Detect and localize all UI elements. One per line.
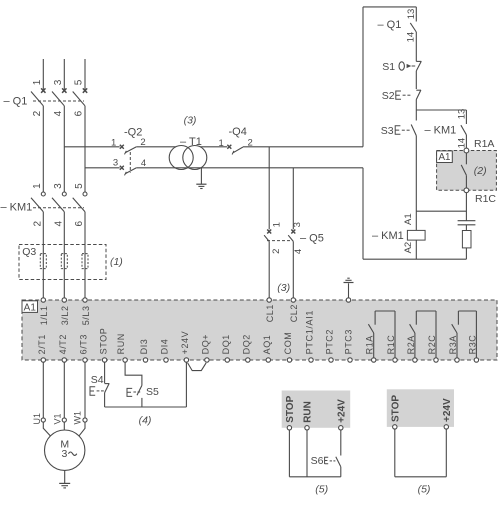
svg-text:2: 2 [248,137,253,148]
svg-text:STOP: STOP [390,395,401,422]
svg-text:6/T3: 6/T3 [79,334,89,354]
svg-text:1: 1 [272,222,283,227]
svg-text:(5): (5) [315,483,328,495]
svg-text:– KM1: – KM1 [1,202,33,214]
svg-text:CL2: CL2 [289,304,299,322]
svg-text:AQ1: AQ1 [262,335,272,355]
svg-text:– Q5: – Q5 [300,233,324,245]
svg-text:4: 4 [141,158,146,169]
svg-text:Q3: Q3 [22,246,36,258]
svg-text:4/T2: 4/T2 [58,334,68,354]
svg-text:– Q1: – Q1 [378,19,402,31]
svg-text:2: 2 [32,221,43,227]
svg-text:R3A: R3A [448,335,458,354]
svg-text:STOP: STOP [285,395,296,422]
svg-text:4: 4 [53,110,64,116]
svg-text:5: 5 [74,183,85,189]
svg-text:3: 3 [292,222,303,227]
svg-text:R3C: R3C [467,335,477,355]
svg-text:CL1: CL1 [265,304,275,322]
svg-text:DI3: DI3 [139,339,149,355]
svg-text:(2): (2) [474,165,487,177]
svg-text:(3): (3) [184,115,197,127]
svg-text:1: 1 [32,183,43,189]
svg-text:+24V: +24V [180,331,190,355]
svg-text:5: 5 [74,79,85,85]
svg-text:3: 3 [53,183,64,189]
svg-text:R2A: R2A [406,335,416,354]
svg-text:– Q1: – Q1 [4,95,28,107]
svg-text:(3): (3) [277,282,290,294]
svg-text:PTC2: PTC2 [325,329,335,354]
svg-text:STOP: STOP [98,328,108,355]
svg-text:6: 6 [74,221,85,227]
svg-text:R1C: R1C [386,335,396,355]
svg-text:13: 13 [456,109,467,120]
svg-text:RUN: RUN [116,333,126,354]
svg-text:DQ+: DQ+ [201,334,211,355]
svg-text:R1A: R1A [365,335,375,354]
svg-text:(5): (5) [418,483,431,495]
svg-text:V1: V1 [53,413,63,424]
svg-text:4: 4 [293,249,304,254]
svg-text:3: 3 [113,157,118,168]
svg-text:A1: A1 [403,213,414,225]
svg-text:2/T1: 2/T1 [37,334,47,354]
svg-text:(4): (4) [139,414,152,426]
svg-text:+24V: +24V [442,398,453,422]
svg-text:S5: S5 [146,386,159,398]
svg-text:S3: S3 [381,125,394,137]
svg-text:S4: S4 [91,374,104,386]
svg-text:-Q2: -Q2 [124,127,142,139]
svg-text:– KM1: – KM1 [372,230,404,242]
svg-text:2: 2 [32,110,43,116]
svg-text:R2C: R2C [427,335,437,355]
svg-text:3/L2: 3/L2 [60,305,70,325]
svg-text:3: 3 [62,448,68,460]
svg-text:4: 4 [53,221,64,227]
svg-text:-Q4: -Q4 [229,126,247,138]
svg-text:+24V: +24V [336,399,347,423]
svg-text:DQ1: DQ1 [221,334,231,354]
svg-text:A2: A2 [403,242,414,254]
svg-text:W1: W1 [72,411,82,425]
svg-text:3: 3 [53,79,64,85]
svg-text:13: 13 [406,9,417,20]
svg-text:6: 6 [74,110,85,116]
svg-text:– T1: – T1 [180,136,202,148]
svg-text:1: 1 [32,79,43,85]
svg-text:DI4: DI4 [160,339,170,355]
svg-text:(1): (1) [110,256,123,268]
svg-text:U1: U1 [32,413,42,425]
svg-text:1: 1 [111,137,116,148]
svg-text:DQ2: DQ2 [242,334,252,354]
svg-text:S6: S6 [311,455,324,467]
svg-text:PTC3: PTC3 [344,329,354,354]
svg-text:COM: COM [283,332,293,355]
svg-text:1/L1: 1/L1 [39,305,49,325]
svg-text:R1A: R1A [474,138,494,150]
svg-text:RUN: RUN [303,401,314,423]
svg-text:2: 2 [271,249,282,254]
svg-text:1: 1 [219,138,224,149]
svg-text:R1C: R1C [475,193,496,205]
svg-text:A1: A1 [439,152,451,163]
svg-text:– KM1: – KM1 [425,124,457,136]
svg-text:PTC1/AI1: PTC1/AI1 [305,310,315,355]
svg-text:A1: A1 [24,302,37,313]
svg-text:5/L3: 5/L3 [81,305,91,325]
svg-text:S1: S1 [382,61,395,73]
svg-text:14: 14 [456,138,467,149]
svg-text:S2: S2 [382,90,395,102]
svg-text:14: 14 [406,32,417,43]
